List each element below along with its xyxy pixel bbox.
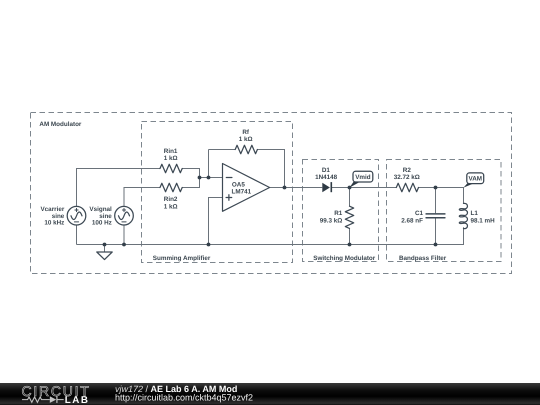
wire feedback vertical [208,150,210,178]
node C1 bottom [434,243,438,247]
wire Vcarrier top to Rin1 [77,169,161,207]
footer text [115,384,253,403]
resistor R2 [396,183,418,191]
node ground [103,243,107,247]
resistor Rin2 [160,183,182,191]
ground [97,252,112,260]
dashed box Summing Amplifier [142,122,293,263]
svg-text:1 kΩ: 1 kΩ [164,203,178,210]
svg-text:10 kHz: 10 kHz [44,220,64,227]
wire node Vmid to R2 [350,187,397,189]
dashed box Bandpass Filter [387,160,502,262]
logo CIRCUIT LAB [22,383,91,405]
svg-text:LM741: LM741 [232,189,252,196]
wire C1 bottom [435,218,437,244]
wire op-amp plus input [209,198,223,245]
svg-text:VAM: VAM [469,176,483,183]
inductor L1 [459,203,467,228]
resistor Rin1 [160,164,182,172]
svg-text:1N4148: 1N4148 [315,174,338,181]
svg-text:Switching Modulator: Switching Modulator [313,255,375,262]
svg-text:Rin1: Rin1 [164,148,178,155]
node R1 bottom [348,243,352,247]
svg-text:R1: R1 [334,210,343,217]
diode D1 [322,182,331,192]
resistor Rf [235,145,257,153]
node plus rail [207,243,211,247]
svg-text:Bandpass Filter: Bandpass Filter [399,255,447,262]
flag VAM [464,173,484,188]
junction dots [103,176,438,247]
svg-text:98.1 mH: 98.1 mH [471,217,496,224]
wire C1 top [435,188,437,214]
svg-text:99.3 kΩ: 99.3 kΩ [320,217,343,224]
node Rin join [198,176,202,180]
wire Vsignal top to Rin2 [124,188,160,207]
wire diode to node Vmid [331,187,349,189]
wire Rin1 out to junction [182,169,199,188]
wire R1 top [349,188,351,207]
op-amp OA5 triangle [223,164,270,212]
node inverting input [207,176,211,180]
wire ground rail [77,227,464,244]
wire Vsignal bottom [123,225,125,245]
flag Vmid [350,171,373,187]
resistor R1 (vertical) [345,206,353,228]
svg-text:Vcarrier: Vcarrier [40,206,64,213]
node C1 top [434,186,438,190]
svg-text:100 Hz: 100 Hz [92,220,112,227]
svg-text:Vmid: Vmid [355,174,371,181]
svg-text:Summing Amplifier: Summing Amplifier [153,255,211,262]
svg-text:C1: C1 [415,210,424,217]
wire Vcarrier bottom [76,225,78,245]
node op-amp output [283,186,287,190]
wire junction to op-amp inverting input [200,177,223,179]
svg-text:http://circuitlab.com/cktb4q57: http://circuitlab.com/cktb4q57ezvf2 [115,393,253,403]
svg-text:LAB: LAB [65,395,90,405]
svg-text:1 kΩ: 1 kΩ [239,136,253,143]
source Vsignal circle [115,206,134,225]
wire ground stem [104,245,106,253]
outer dashed box AM Modulator [31,113,512,274]
svg-text:Rf: Rf [242,129,250,136]
svg-text:OA5: OA5 [232,181,245,188]
dashed box Switching Modulator [303,160,379,262]
wire Rf right [257,150,284,188]
svg-text:D1: D1 [322,167,331,174]
svg-text:2.68 nF: 2.68 nF [401,217,423,224]
svg-text:1 kΩ: 1 kΩ [164,155,178,162]
op-amp plus sign [226,197,232,199]
op-amp minus sign [226,177,232,179]
capacitor C1 [426,213,445,215]
source Vcarrier circle [67,206,86,225]
wire R1 bottom [349,228,351,244]
wire R2 to C1 top to L1 top [419,188,464,204]
svg-text:AM Modulator: AM Modulator [39,121,82,128]
svg-text:Vsignal: Vsignal [89,206,112,213]
wire Rf left [209,149,236,151]
node Vmid [348,186,352,190]
wire op-amp output to diode D1 [270,187,323,189]
svg-text:R2: R2 [403,167,412,174]
node Vsignal bottom [122,243,126,247]
svg-text:L1: L1 [471,210,479,217]
svg-text:32.72 kΩ: 32.72 kΩ [394,174,420,181]
svg-text:Rin2: Rin2 [164,196,178,203]
